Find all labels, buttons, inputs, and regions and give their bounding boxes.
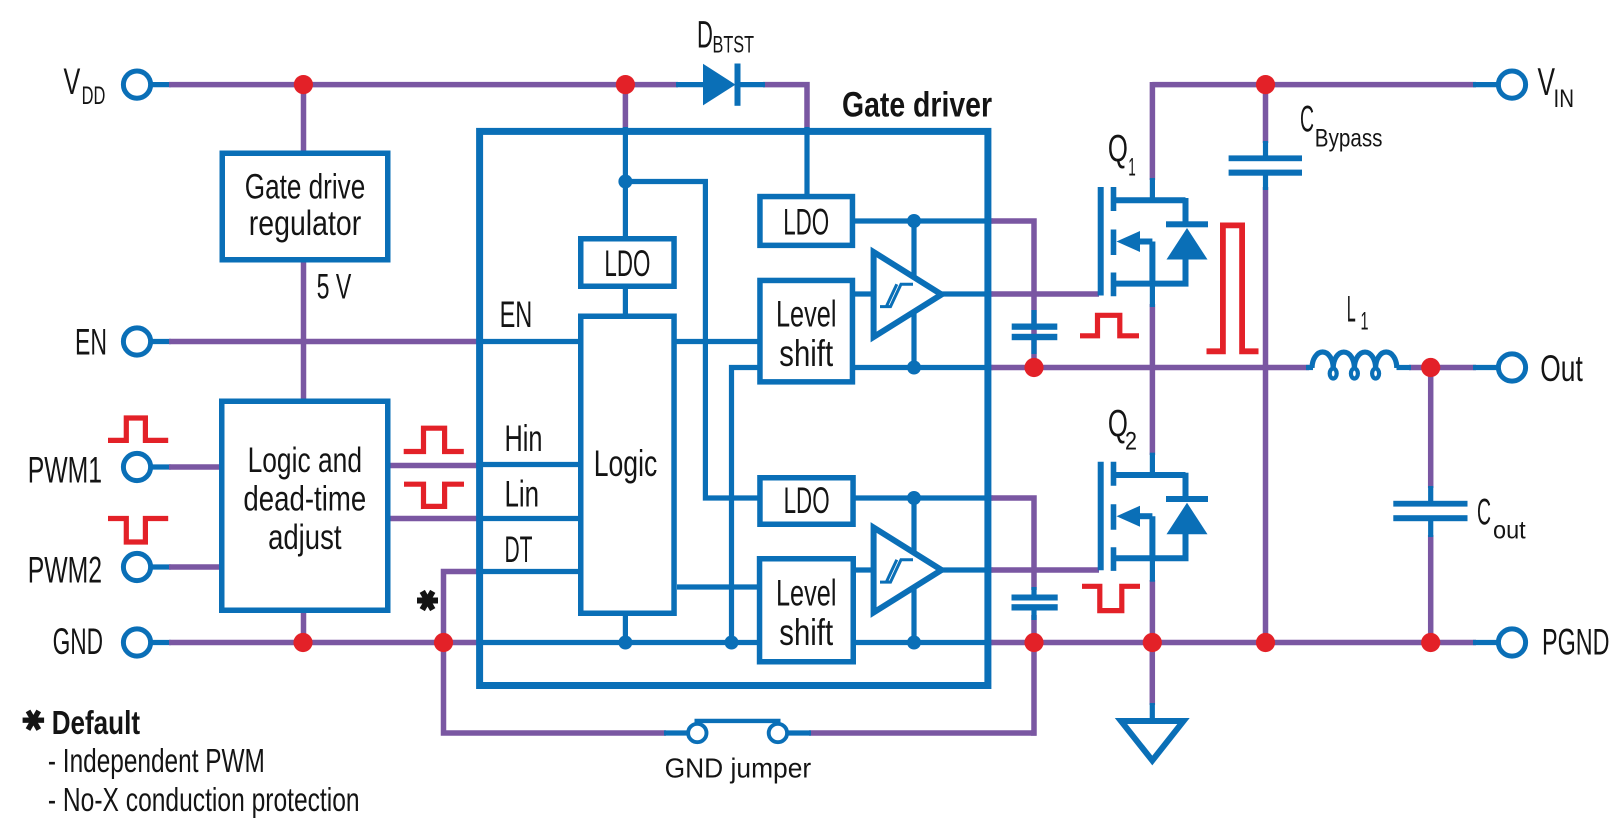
waveform Lin pulse [404,484,464,506]
svg-text:DD: DD [82,82,106,110]
waveform PWM1 pulse [108,418,168,440]
wire PWM2 [148,564,171,569]
svg-text:C: C [1477,491,1491,532]
wire VDD drop to regulator / 5V rail / logic GND return [301,85,307,643]
wire internal VDD branch to lower LDO [625,182,759,499]
svg-text:Level: Level [776,573,837,614]
wire ground symbol lead [1150,643,1156,706]
wire bootstrap cap Q2 lower lead to PGND and jumper [1031,615,1034,733]
block LDO left (U-LDO1) [581,239,674,287]
waveform Q2 gate pulse [1082,586,1140,610]
svg-text:shift: shift [779,612,833,653]
svg-text:EN: EN [500,294,533,335]
inductor L1 [1306,352,1411,379]
diode DBTST [676,64,765,106]
junction upper LDO output [907,214,921,228]
wire Q2 source to PGND [1150,580,1156,643]
svg-text:LDO: LDO [604,243,650,284]
wire diode feed into upper-right LDO [804,127,809,196]
terminal VDD [123,71,150,98]
terminal EN [123,328,150,355]
wire VDD rail (terminal stub) [148,82,171,87]
waveform PWM2 pulse [108,519,168,543]
svg-text:PWM1: PWM1 [28,450,102,491]
junction PGND-Q2-source [1143,633,1162,652]
wire DT default tie to GND jumper run [444,572,667,734]
wire bootstrap rail vertical x914 upper [911,221,916,368]
junction Out-Cout [1421,358,1440,377]
wire Cout leads [1428,368,1434,489]
wire Lin [388,516,481,522]
block Level shift 2 [760,559,854,662]
wire VDD rail to diode [169,82,678,88]
junction PGND-Cout [1421,633,1440,652]
wire level shift 2 output to schmitt2 input [853,567,877,572]
op-amp schmitt trigger 2 [874,528,942,613]
svg-text:L: L [1347,289,1356,330]
wire EN net [148,339,171,344]
svg-text:- Independent PWM: - Independent PWM [48,742,265,779]
capacitor CBypass value label [1300,98,1383,152]
svg-text:1: 1 [1128,154,1136,182]
wire lower LDO rail vertical x914 [911,498,916,643]
svg-text:Lin: Lin [505,473,540,514]
block Logic [581,316,674,613]
wire logic output to level shift 2 [677,584,759,589]
transistor Q2 [1098,453,1208,582]
svg-text:Bypass: Bypass [1315,125,1383,153]
GND jumper [664,721,811,742]
wire schmitt2 output to Q2 gate [941,567,993,572]
wire VIN rail [1152,82,1476,88]
wire upper LDO output [853,218,993,223]
wire VDD drop into gate driver box [623,85,629,129]
terminal PWM1 [123,453,150,480]
junction PGND-bootstrap-jumper [1024,633,1043,652]
svg-text:BTST: BTST [713,31,755,58]
wire level shift 1 output to schmitt1 input [853,291,877,296]
block LDO lower right (U-LDO3) [760,478,853,525]
wire schmitt1 output to Q1 gate [941,291,993,296]
junction Out-bootstrap [1024,358,1043,377]
wire switch node line inside box [853,365,993,370]
junction PGND-CBypass [1256,633,1275,652]
capacitor Cout [1393,486,1467,537]
svg-text:V: V [64,61,81,102]
svg-text:GND: GND [53,621,104,662]
junction lower LDO output [907,491,921,505]
waveform Hin pulse [404,428,464,451]
wire EN inside box to Logic and Logic to level shift [478,339,759,344]
wire level shift 1 reference drop [732,368,760,643]
svg-text:- No-X conduction protection: - No-X conduction protection [48,781,360,818]
junction schmitt GND [907,636,921,650]
svg-text:1: 1 [1361,308,1369,336]
svg-text:C: C [1300,98,1314,139]
block Gate drive regulator [222,153,388,260]
terminal VIN [1498,71,1525,98]
junction switch node internal [907,361,921,375]
svg-text:Level: Level [776,294,837,335]
wire Q1 source to Q2 drain [1150,304,1156,455]
wire CBypass leads [1263,85,1269,143]
svg-text:Q: Q [1108,128,1128,170]
svg-text:out: out [1493,517,1526,545]
wire GND inside box [478,640,993,645]
wire internal VDD node vertical [623,127,628,643]
svg-text:regulator: regulator [249,204,362,243]
svg-text:EN: EN [75,322,107,363]
block Logic and dead-time adjust label [243,441,366,557]
wire DT [478,569,581,574]
svg-text:Out: Out [1540,348,1583,389]
svg-text:shift: shift [779,333,833,374]
wire VIN drop to Q1 drain [1150,82,1156,180]
terminal PGND [1498,629,1525,656]
node VDD label [64,61,106,110]
junction logic GND [618,636,632,650]
wire PGND net right [989,640,1476,646]
svg-text:DT: DT [505,529,533,570]
svg-text:Default: Default [52,704,140,741]
capacitor CBypass [1229,141,1302,190]
svg-text:Logic and: Logic and [248,441,362,480]
block Gate driver outline [480,131,988,685]
block LDO upper right (U-LDO2) [760,197,853,246]
junction VDD-regulator [294,75,313,94]
svg-text:2: 2 [1125,428,1137,456]
wire Hin [388,463,481,469]
transistor Q1 [1098,178,1208,307]
waveform switch node pulse [1207,225,1259,351]
svg-text:LDO: LDO [783,202,829,243]
op-amp schmitt trigger 1 [874,252,942,337]
junction VIN-CBypass [1256,75,1275,94]
asterisk footnote marker [23,710,45,731]
block Level shift 1 [760,280,853,381]
svg-text:Gate driver: Gate driver [842,86,992,125]
block Level shift 1 label [776,294,837,375]
block Level shift 2 label [776,573,837,654]
node VIN label [1538,61,1575,113]
svg-text:PGND: PGND [1542,622,1610,663]
waveform Q1 gate pulse [1080,315,1139,336]
ground [1121,703,1184,761]
svg-text:IN: IN [1554,85,1575,113]
svg-text:PWM2: PWM2 [28,550,102,591]
wire GND jumper run right [809,730,1037,736]
svg-text:GND jumper: GND jumper [665,753,812,784]
wire lower LDO output [853,495,993,500]
svg-text:Hin: Hin [505,418,543,459]
svg-text:dead-time: dead-time [243,480,366,519]
capacitor bootstrap Q1 [1012,310,1058,354]
wire PWM1 [148,464,171,469]
svg-text:Gate drive: Gate drive [245,168,366,207]
capacitor Cout value label [1477,491,1526,544]
inductor L1 value label [1347,289,1369,336]
junction VDD-gate-driver [616,75,635,94]
transistor Q1 value label [1108,128,1136,182]
block Logic and dead-time adjust [222,401,388,610]
terminal PWM2 [123,553,150,580]
wire Out line [989,365,1309,371]
junction GND-logic-block [293,633,312,652]
terminal Out [1498,354,1525,381]
svg-text:adjust: adjust [268,518,342,557]
svg-text:LDO: LDO [784,480,830,521]
junction internal VDD node [618,175,632,189]
svg-text:5 V: 5 V [317,267,352,306]
svg-text:D: D [697,15,713,57]
junction GND-DT-tie [434,633,453,652]
junction level-shift reference GND [725,636,739,650]
wire GND net left [148,640,171,645]
svg-text:Logic: Logic [594,443,658,484]
terminal GND [123,629,150,656]
asterisk DT default marker [417,590,438,611]
capacitor bootstrap Q2 [1012,587,1058,620]
wire diode cathode to LDO drop [763,85,807,129]
block Gate drive regulator label [245,168,366,244]
transistor Q2 value label [1108,403,1137,456]
diode DBTST value label [697,15,754,59]
